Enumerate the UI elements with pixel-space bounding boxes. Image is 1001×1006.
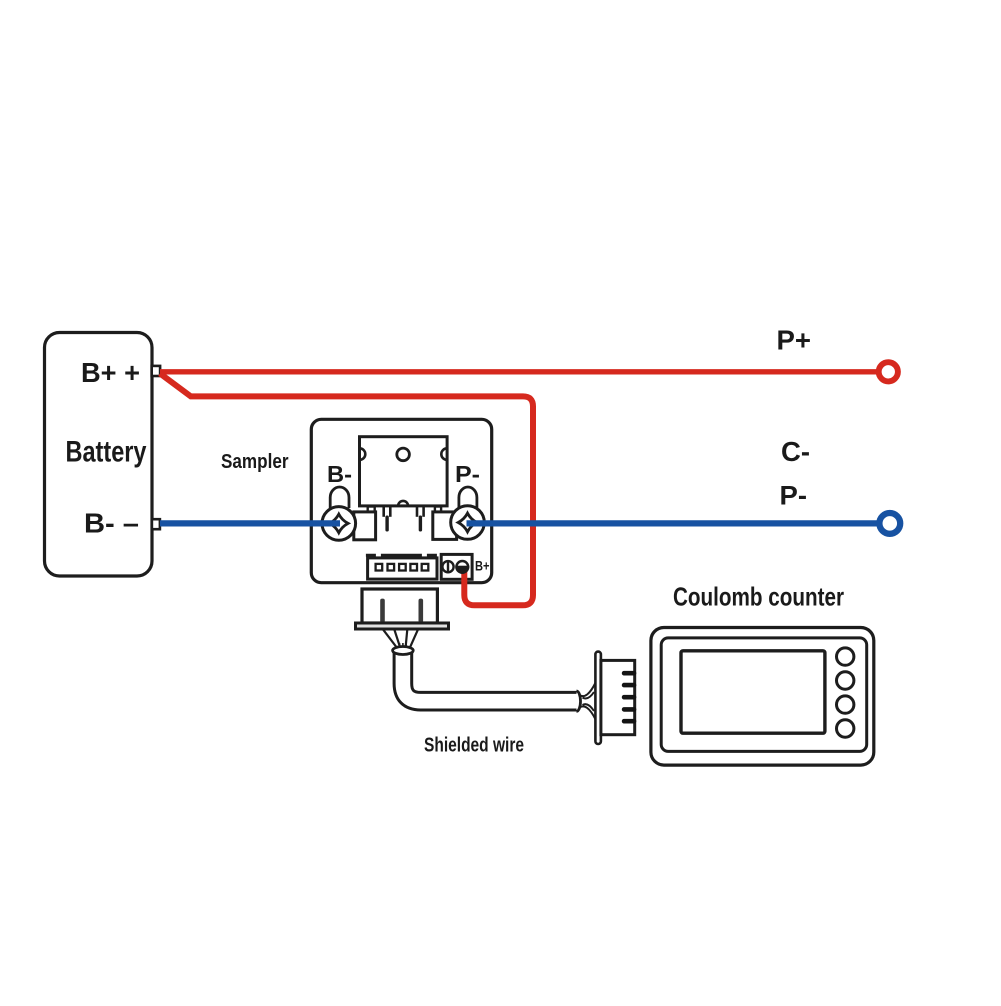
package hole left (360, 448, 366, 460)
svg-text:Battery: Battery (66, 436, 147, 469)
connector flange (595, 652, 601, 744)
pad stub right (435, 507, 441, 513)
button 2 (837, 672, 854, 689)
B+ screw head dome (455, 561, 469, 573)
svg-text:B-: B- (327, 461, 352, 487)
B+ terminal block (441, 554, 472, 579)
blue wire P- right (467, 520, 878, 526)
coulomb counter screen (681, 651, 825, 733)
sampler box (311, 419, 491, 582)
connector teeth (622, 671, 637, 724)
tab above screw P- (459, 487, 477, 508)
blue wire B- left (160, 520, 340, 526)
svg-text:Shielded wire: Shielded wire (424, 734, 524, 756)
lug pad left (354, 512, 376, 540)
flare into connector (580, 683, 596, 720)
cable end cap (577, 691, 581, 711)
svg-text:P-: P- (455, 461, 480, 487)
plug flange (356, 623, 449, 629)
screw B- (322, 507, 356, 541)
battery box (45, 333, 153, 577)
shielded cable (403, 650, 577, 701)
plug prong left (380, 599, 385, 623)
button 4 (837, 720, 854, 737)
funnel wires (383, 629, 418, 652)
terminal P+ circle (879, 362, 898, 381)
plug below sampler (362, 589, 437, 623)
button 1 (837, 648, 854, 665)
shunt package U1 (360, 437, 448, 506)
tab above screw B- (330, 487, 349, 508)
package hole bottom (398, 501, 408, 506)
battery terminal B+ (152, 366, 160, 376)
battery terminal B- (152, 519, 160, 529)
svg-text:P-: P- (780, 481, 808, 511)
pin 2 (388, 564, 395, 571)
screw P- (451, 506, 485, 540)
pad stub left (368, 507, 375, 513)
5-pin connector J1 (368, 558, 437, 579)
red wire P+ top (160, 369, 876, 374)
connector body (601, 660, 635, 734)
plug prong right (419, 599, 424, 623)
pin 1 (376, 564, 383, 571)
svg-text:B- –: B- – (84, 508, 139, 539)
package leg right (417, 506, 424, 532)
pin 3 (399, 564, 406, 571)
svg-text:P+: P+ (777, 325, 812, 356)
red wire to sampler B+ (160, 374, 533, 606)
svg-text:C-: C- (781, 436, 810, 467)
cable collar (393, 647, 414, 655)
svg-text:B+: B+ (475, 558, 490, 574)
package hole center (397, 448, 410, 461)
package leg left (384, 506, 391, 532)
svg-text:B+ +: B+ + (81, 357, 140, 388)
terminal P- circle (879, 513, 900, 534)
pin 4 (410, 564, 417, 571)
dashed connector lid (366, 554, 437, 557)
pin 5 (422, 564, 429, 571)
B+ screw side view (442, 561, 453, 572)
coulomb counter outer case (651, 628, 874, 766)
svg-text:Sampler: Sampler (221, 451, 289, 473)
package hole right (441, 448, 447, 460)
coulomb counter bezel (661, 638, 867, 752)
svg-text:Coulomb counter: Coulomb counter (673, 581, 844, 611)
button 3 (837, 696, 854, 713)
lug pad right (433, 512, 457, 540)
